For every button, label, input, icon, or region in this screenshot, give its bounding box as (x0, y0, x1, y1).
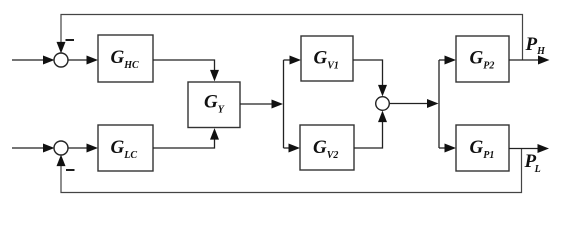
wire branch to G_P1 (439, 144, 456, 153)
block G_P2 (456, 36, 509, 82)
node branch left vertical (283, 60, 285, 148)
block G_HC (98, 35, 153, 82)
wire G_V2 to S3 (354, 111, 387, 148)
block G_LC (98, 125, 153, 171)
wire G_LC to G_Y (153, 128, 219, 148)
wire G_P2 output P_H with arrow (509, 56, 550, 65)
summing junction S2 (54, 141, 68, 155)
wire bottom feedback line into S2 (57, 148, 522, 193)
wire input bottom with arrow (12, 144, 55, 153)
summing junction S3 (376, 97, 390, 111)
wire G_Y output to branch node (240, 100, 283, 109)
wire G_HC to G_Y (153, 60, 219, 81)
block G_P1 (456, 125, 509, 171)
summing junction S1 (54, 53, 68, 67)
wire top feedback line into S1 (57, 15, 523, 61)
wire G_P1 output P_L with arrow (509, 144, 549, 153)
minus sign at S2 (66, 169, 75, 171)
wire branch to G_V1 (284, 56, 302, 65)
minus sign at S1 (66, 39, 75, 41)
wire G_V1 to S3 (353, 60, 387, 96)
wire S2 to G_LC (68, 144, 98, 153)
wire branch to G_P2 (439, 56, 456, 65)
block G_V2 (300, 125, 354, 170)
block G_Y (188, 82, 240, 128)
block G_V1 (301, 36, 353, 81)
wire input top with arrow (12, 56, 55, 65)
wire branch to G_V2 (284, 144, 301, 153)
wire S3 to branch node right (389, 99, 438, 108)
wire S1 to G_HC (68, 56, 98, 65)
node branch right vertical (438, 60, 440, 148)
